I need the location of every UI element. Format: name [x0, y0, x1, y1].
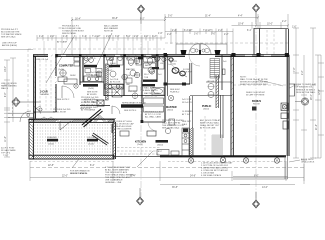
neck dashed tracks — [267, 30, 274, 54]
entry columns — [181, 50, 221, 55]
garage wall hatch top — [30, 119, 115, 122]
bonus small rect — [252, 107, 257, 111]
svg-text:14'-0": 14'-0" — [5, 66, 7, 72]
svg-text:24'-8": 24'-8" — [190, 176, 196, 178]
svg-text:2'-0": 2'-0" — [50, 36, 55, 38]
svg-text:TUB: TUB — [144, 77, 149, 79]
note block top-left with leader — [59, 26, 85, 36]
foyer partition — [190, 55, 232, 96]
svg-text:7'-10": 7'-10" — [3, 155, 9, 157]
svg-text:ALL WALL CABS: ALL WALL CABS — [145, 116, 162, 119]
svg-text:DESK: DESK — [70, 75, 76, 77]
garage top small triangles — [41, 117, 54, 120]
closet rects mid — [144, 57, 165, 112]
note leader bonus — [258, 80, 283, 86]
svg-text:(2x10): (2x10) — [48, 144, 54, 146]
bottom-center numbered notes — [201, 162, 233, 178]
water heater dark strip — [84, 65, 97, 68]
svg-text:16 RISERS: 16 RISERS — [182, 111, 193, 113]
svg-text:ROOM: ROOM — [253, 104, 260, 106]
roof dashed line left — [27, 49, 29, 120]
entry double door arcs — [189, 44, 211, 55]
porch column 2 — [220, 157, 225, 162]
extra top row fixtures — [109, 56, 166, 61]
svg-text:COMPUTER: COMPUTER — [59, 65, 74, 68]
svg-text:W/ 1x8 TR: W/ 1x8 TR — [182, 102, 192, 104]
bottom wall main — [160, 155, 286, 157]
computer door arc — [62, 86, 74, 98]
svg-text:WC: WC — [109, 67, 113, 69]
svg-text:AT ALL WALL: AT ALL WALL — [84, 101, 98, 104]
svg-text:MASTER: MASTER — [126, 68, 135, 71]
bath2 fixtures — [127, 57, 154, 76]
extra scatter texts cluster — [85, 57, 170, 98]
laundry washer dryer — [84, 57, 93, 65]
porch dashed line below bottom wall — [168, 161, 285, 163]
dining note block — [200, 119, 221, 130]
svg-text:W: W — [85, 58, 87, 60]
svg-text:22'-8": 22'-8" — [48, 165, 54, 167]
stairs bottom line — [206, 81, 232, 83]
grid line A — [140, 13, 142, 197]
INTERIOR PARTITIONS left block — [34, 56, 80, 112]
hatched wall kitchen/dining upper thin — [190, 96, 193, 128]
hatched wall bath — [106, 64, 109, 100]
garage hatched walls outline — [29, 119, 116, 159]
refrigerator block — [121, 102, 146, 112]
svg-text:(3010): (3010) — [167, 110, 173, 112]
grid bubble top B — [253, 4, 260, 12]
fireplace assembly — [281, 84, 295, 129]
svg-text:AT 7 3/4": AT 7 3/4" — [182, 113, 191, 116]
bonus room left wall — [231, 55, 233, 156]
svg-text:8'-0": 8'-0" — [254, 176, 259, 178]
svg-text:8'-4": 8'-4" — [90, 165, 95, 167]
svg-text:RFGF AT THE WALL: RFGF AT THE WALL — [296, 91, 316, 94]
dining dashed line — [204, 116, 206, 152]
svg-text:(3010): (3010) — [203, 109, 209, 111]
svg-text:SHWR: SHWR — [146, 58, 153, 60]
svg-text:3'-0": 3'-0" — [211, 34, 216, 36]
left margin note — [1, 83, 17, 90]
note leader diagonal 1 — [46, 35, 75, 83]
svg-text:7'-4 1/2": 7'-4 1/2" — [203, 30, 212, 32]
note leader diagonal 2 — [95, 33, 112, 69]
nook chamfer diagonal — [92, 133, 109, 145]
svg-text:WALLS: WALLS — [1, 87, 9, 90]
extra top ticks — [43, 29, 212, 41]
svg-text:4'-4": 4'-4" — [238, 16, 243, 18]
svg-text:7'-4 1/2": 7'-4 1/2" — [92, 36, 101, 38]
grid line B — [255, 12, 257, 200]
svg-text:SEE DET 2/A-6: SEE DET 2/A-6 — [1, 36, 16, 39]
svg-text:16'-4": 16'-4" — [75, 19, 81, 21]
garage interior dot grid — [32, 125, 112, 152]
garage right wall hatch — [113, 123, 116, 159]
cooler dark strip 2 — [87, 139, 98, 142]
top-left roof note — [2, 43, 17, 48]
svg-text:31'-4": 31'-4" — [205, 16, 211, 18]
note block far top-left — [1, 29, 22, 39]
grid bubble bottom A — [137, 197, 144, 205]
svg-text:3'-2": 3'-2" — [152, 36, 157, 38]
foyer wall hatched 216 — [216, 75, 219, 108]
svg-text:GARAGE: GARAGE — [40, 93, 50, 96]
svg-text:36'-8": 36'-8" — [172, 187, 178, 189]
computer fan — [60, 70, 66, 76]
svg-text:9'-2": 9'-2" — [302, 70, 304, 75]
svg-text:12'-6": 12'-6" — [319, 89, 321, 95]
powder diamond tag — [168, 57, 174, 63]
svg-text:FREEZER: FREEZER — [47, 137, 57, 139]
garage outer face line — [29, 117, 116, 119]
entry porch face — [176, 44, 227, 54]
nook bottom wall thin — [113, 156, 160, 158]
svg-text:SEE NOTE 2: SEE NOTE 2 — [57, 99, 70, 101]
master door arc — [148, 122, 157, 131]
svg-text:1'-6": 1'-6" — [158, 33, 163, 35]
foyer door swing arc — [189, 55, 200, 66]
dining fixtures bottom — [157, 150, 179, 156]
svg-text:PLAN E-2: PLAN E-2 — [170, 91, 180, 94]
porch column 3 — [243, 158, 248, 163]
roof dashed line top — [28, 48, 165, 50]
svg-text:4'-0": 4'-0" — [144, 36, 149, 38]
svg-text:26'-0": 26'-0" — [311, 94, 313, 100]
garage wall hatch left — [29, 123, 34, 158]
bottom-left note block 2 — [105, 167, 134, 184]
svg-text:30x60: 30x60 — [110, 63, 117, 65]
right margin extra line — [320, 55, 322, 158]
kitchen dashed counters — [117, 148, 160, 155]
right vertical dimension lines — [293, 28, 321, 184]
svg-text:SEE NOTE 4: SEE NOTE 4 — [124, 110, 137, 112]
svg-text:OF THE COUNTER: OF THE COUNTER — [113, 129, 132, 131]
bath1 fixtures — [107, 57, 124, 77]
right exterior wall — [287, 55, 289, 156]
kitchen bay diagonal walls — [82, 109, 112, 133]
porch column 4 — [274, 158, 279, 163]
svg-text:10'-8": 10'-8" — [238, 24, 244, 26]
top small dimension string left — [37, 37, 165, 39]
wall face ticks left — [34, 55, 158, 118]
hall text block — [81, 97, 99, 112]
svg-text:22'-0": 22'-0" — [62, 176, 68, 178]
window tick marks top wall — [61, 55, 271, 57]
bottom dimension lines — [30, 161, 304, 185]
svg-text:THE BATH WALLS: THE BATH WALLS — [140, 89, 158, 92]
garage left door arc — [20, 111, 31, 122]
svg-text:SHEET A-5 FOR MORE INFO: SHEET A-5 FOR MORE INFO — [240, 83, 268, 86]
svg-text:5'-0" CLR: 5'-0" CLR — [128, 91, 137, 93]
svg-text:(3010): (3010) — [157, 144, 163, 146]
svg-text:14'-0": 14'-0" — [262, 187, 268, 189]
left exterior wall — [34, 55, 36, 121]
svg-text:6'-3 1/2": 6'-3 1/2" — [184, 30, 193, 32]
shower stall — [112, 87, 122, 97]
wall right of stairs lower — [221, 95, 224, 138]
svg-text:36'-8": 36'-8" — [112, 18, 118, 20]
svg-text:2'-2": 2'-2" — [224, 34, 229, 36]
svg-text:OF BOLT SPACE: OF BOLT SPACE — [70, 172, 87, 175]
note1 leader — [72, 159, 79, 168]
svg-text:W.I.C.: W.I.C. — [144, 74, 150, 76]
svg-text:(2x10): (2x10) — [88, 88, 94, 90]
left stoop lines — [8, 100, 34, 118]
garage entry door arc top-left — [35, 106, 43, 114]
extra top dim texts — [50, 16, 243, 39]
extension ticks to wall — [44, 41, 148, 54]
wall joint blocks — [164, 53, 290, 57]
stair side texts — [182, 99, 193, 126]
garage door opening 2 gable — [91, 116, 108, 123]
bonus left wall hatch ticks — [231, 58, 233, 150]
svg-text:AT 4B WD: AT 4B WD — [87, 93, 97, 96]
svg-text:WALL CLOSET: WALL CLOSET — [105, 91, 120, 94]
svg-text:AT THIS AREA: AT THIS AREA — [81, 109, 95, 112]
svg-text:3'-0": 3'-0" — [115, 36, 120, 38]
note leader bottom — [137, 151, 153, 167]
svg-text:11'-4": 11'-4" — [5, 136, 7, 142]
entry side arc — [168, 64, 176, 72]
svg-text:(2x10): (2x10) — [137, 144, 143, 146]
laundry room dark label — [83, 84, 98, 87]
svg-text:FENCE PANEL: FENCE PANEL — [62, 32, 77, 35]
top small dimension string entry — [165, 31, 233, 33]
svg-text:2'-2": 2'-2" — [282, 21, 287, 23]
small furniture dining — [169, 119, 175, 125]
stairs — [210, 59, 220, 79]
svg-text:4'-0": 4'-0" — [158, 151, 162, 153]
svg-text:LINE OF 4x6: LINE OF 4x6 — [36, 59, 49, 61]
svg-text:(2x10): (2x10) — [58, 69, 64, 71]
deck below bonus room — [233, 156, 288, 179]
bath cluster partitions — [80, 54, 168, 122]
svg-text:GENERAL - LINE: GENERAL - LINE — [105, 181, 122, 184]
svg-text:BATH: BATH — [145, 64, 151, 67]
svg-text:3'-0": 3'-0" — [194, 34, 199, 36]
svg-text:AT FLOOR: AT FLOOR — [110, 81, 121, 84]
svg-text:NOTE 4B: NOTE 4B — [104, 31, 114, 33]
svg-text:(SEE NOTE): (SEE NOTE) — [145, 96, 157, 98]
svg-text:2'-2": 2'-2" — [218, 30, 223, 32]
svg-text:21'-4": 21'-4" — [316, 124, 318, 130]
left grid bubble with leader — [12, 98, 41, 107]
svg-text:9'-2": 9'-2" — [140, 19, 145, 21]
diamond fixture — [155, 56, 161, 62]
utility box — [97, 100, 104, 106]
svg-text:ATT DASH: ATT DASH — [57, 41, 68, 44]
grid bubble bottom B — [253, 200, 260, 208]
top overall dimension lines — [72, 14, 288, 55]
svg-text:6. BE SLAB 4 SPACE: 6. BE SLAB 4 SPACE — [201, 174, 222, 177]
svg-text:10'-0": 10'-0" — [267, 24, 273, 26]
bottom-left note block 1 — [70, 170, 90, 176]
room1 dashed tracks — [40, 60, 51, 110]
svg-text:(2x10): (2x10) — [88, 144, 94, 146]
kitchen counter along wall — [182, 128, 189, 156]
dark strips bath — [143, 80, 157, 82]
svg-text:LIN: LIN — [160, 63, 164, 65]
gap fillers cluster — [85, 69, 164, 96]
kitchen island — [147, 131, 156, 136]
svg-text:AT FLOOR LINE: AT FLOOR LINE — [200, 127, 216, 130]
laundry fan — [96, 71, 102, 77]
svg-text:OF ALL DECK: OF ALL DECK — [301, 161, 315, 164]
svg-text:REFRIGERATOR SPACE: REFRIGERATOR SPACE — [122, 102, 146, 105]
kitchen note block — [113, 121, 134, 131]
svg-text:TOP WINDOW SOL.: TOP WINDOW SOL. — [294, 87, 314, 89]
svg-text:6'-1": 6'-1" — [247, 30, 252, 32]
top-right neck walls — [254, 28, 289, 55]
hatched wall kitchen/dining lower — [190, 128, 194, 156]
top-left horiz line — [0, 49, 33, 51]
svg-text:2x12 STR: 2x12 STR — [182, 99, 192, 101]
svg-text:TILE: TILE — [126, 75, 131, 77]
door meeting stile — [199, 50, 201, 55]
powder fixtures — [172, 68, 187, 77]
grid bubble top A — [138, 5, 145, 13]
bonus dashed mid line — [233, 84, 287, 86]
svg-text:7'-6": 7'-6" — [294, 67, 296, 72]
note block top-mid — [104, 25, 119, 33]
computer closet — [64, 57, 80, 84]
svg-text:TILE FLR: TILE FLR — [183, 72, 192, 74]
hall door arc — [112, 106, 120, 114]
fan circles cluster — [122, 56, 160, 98]
svg-text:2'-6": 2'-6" — [134, 36, 139, 38]
svg-text:SINK: SINK — [86, 74, 91, 76]
master note block — [162, 119, 184, 130]
svg-text:2'-2": 2'-2" — [167, 34, 172, 36]
fireplace note right — [294, 83, 317, 94]
porch column 1 — [188, 158, 193, 163]
svg-text:4'-6": 4'-6" — [5, 92, 7, 97]
svg-text:LAV: LAV — [126, 83, 130, 86]
svg-text:ABOVE (DASH): ABOVE (DASH) — [2, 44, 17, 47]
powder room walls — [164, 63, 192, 84]
svg-text:WC: WC — [126, 58, 130, 60]
garage footer dashes — [30, 161, 114, 163]
svg-text:5'-1": 5'-1" — [126, 36, 131, 38]
left vertical dimension lines — [4, 58, 16, 157]
garage door opening 1 triangle — [58, 119, 72, 130]
garage wall hatch bottom — [30, 156, 114, 160]
dim slashes top — [71, 17, 289, 27]
keynote marker right margin — [295, 98, 309, 105]
freezer dark strip 1 — [47, 139, 58, 142]
svg-text:SEE DETAIL 6/A-4: SEE DETAIL 6/A-4 — [162, 127, 180, 130]
vanity row — [84, 76, 123, 89]
svg-text:30x60: 30x60 — [128, 63, 135, 65]
top wall main house — [33, 55, 289, 57]
svg-text:36" AFF TYP HERE: 36" AFF TYP HERE — [246, 94, 265, 97]
svg-text:TOILET: TOILET — [105, 70, 113, 72]
bonus room note — [240, 77, 269, 87]
svg-text:5'-0": 5'-0" — [168, 16, 173, 18]
stair ref bubbles — [208, 84, 214, 98]
tile grid steps — [212, 135, 223, 156]
